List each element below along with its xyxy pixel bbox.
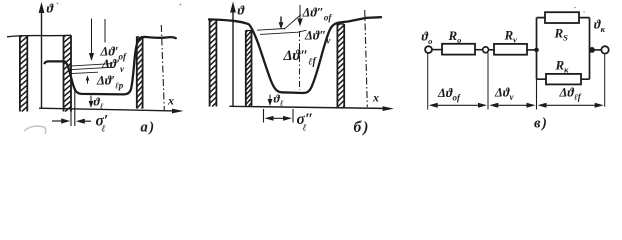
wire node to Rv <box>489 49 495 51</box>
wire junction to terminal theta-k <box>592 49 601 51</box>
diagram a: theta axis <box>39 2 45 109</box>
svg-text:ℓ: ℓ <box>303 124 307 134</box>
svg-text:x: x <box>372 91 379 105</box>
diagram a: level line 2 <box>69 67 113 70</box>
diagram b: left hatched wall <box>210 21 217 107</box>
scan smudge bottom left <box>24 126 46 134</box>
wire R0 to node <box>475 49 483 51</box>
diagram b: level line 1 <box>257 29 285 31</box>
parallel block right vertical wire <box>589 18 591 80</box>
terminal theta-o <box>425 46 432 53</box>
diagram b: label delta-theta-tf <box>283 48 318 68</box>
diagram a: x axis label <box>167 94 174 108</box>
diagram a: label sigma-i-prime <box>96 113 109 135</box>
node theta-o terminal label <box>422 30 433 47</box>
dimension arrow delta-theta-of <box>429 103 487 108</box>
wire terminal to R0 <box>432 49 442 51</box>
resistor Rv <box>494 28 527 55</box>
diagram a: small up arrow under level line 3 <box>86 75 90 83</box>
diagram a: theta-i arrow to axis <box>89 96 94 109</box>
diagram b: right hatched wall <box>337 24 344 107</box>
label delta-theta-of <box>437 86 461 103</box>
diagram b: label delta-theta-of <box>302 6 333 23</box>
diagram a: label delta-theta-v <box>101 57 125 74</box>
diagram a: caption <box>141 120 155 136</box>
dimension arrow delta-theta-v <box>489 103 535 108</box>
node between R0 and Rv <box>483 47 489 53</box>
node theta-k label <box>594 18 606 35</box>
diagram b: x axis label <box>372 91 379 105</box>
dimension arrow delta-theta-tf <box>538 103 604 108</box>
diagram b: theta-i arrow <box>268 95 273 107</box>
dimension extension line at terminal theta-k <box>604 54 606 107</box>
terminal theta-k <box>601 46 608 53</box>
svg-text:ϑ: ϑ <box>47 1 55 16</box>
resistor R0 <box>442 28 475 55</box>
diagram b: dash-dot center line <box>299 31 301 90</box>
diagram a: label delta-theta-of <box>100 45 127 62</box>
diagram a: theta axis label <box>47 1 55 16</box>
svg-text:в): в) <box>534 116 547 132</box>
diagram a: right hatched wall <box>137 36 143 108</box>
diagram b: theta axis <box>230 2 236 108</box>
dimension extension line at node <box>487 53 489 110</box>
diagram b: label sigma-i-dprime <box>297 111 314 134</box>
diagram b: dash-dot line right <box>365 10 368 107</box>
diagram b: level line 2 <box>260 30 307 34</box>
label delta-theta-v <box>494 86 514 103</box>
label delta-theta-tf <box>559 86 582 103</box>
diagram a: inner hatched wall <box>64 35 72 111</box>
diagram b: label theta-i <box>274 92 284 109</box>
resistor Rs <box>545 12 579 42</box>
junction right of parallel block <box>589 47 595 53</box>
svg-text:x: x <box>167 94 174 108</box>
diagram b: sigma extension ticks <box>264 109 294 123</box>
diagram b: dimension arrow down to plateau <box>297 5 302 27</box>
diagram a: sigma dimension arrows <box>52 118 91 123</box>
dimension extension line at terminal theta-o <box>427 53 429 109</box>
caption v <box>534 116 547 132</box>
diagram b: leader to label of <box>284 15 301 30</box>
diagram b: caption <box>354 119 369 136</box>
diagram b: x axis <box>229 106 394 111</box>
diagram a: dash-dot symmetry line <box>161 25 164 110</box>
diagram a: temperature curve <box>45 37 176 94</box>
top branch wires <box>537 17 590 19</box>
diagram b: groove left hatched wall <box>246 31 252 107</box>
resistor Rk <box>546 58 581 85</box>
diagram b: sigma dimension double arrow <box>265 116 293 121</box>
diagram a: level line 1 <box>68 64 113 67</box>
diagram a: dimension arrow down to plateau <box>89 19 94 62</box>
parallel block left vertical wire <box>536 18 538 110</box>
diagram b: temperature curve <box>209 17 381 93</box>
diagram a: x axis <box>39 108 184 113</box>
svg-text:ℓ: ℓ <box>102 125 106 135</box>
svg-text:а): а) <box>141 120 155 136</box>
diagram a: left hatched wall <box>20 36 27 112</box>
diagram b: small level arrows <box>279 17 284 30</box>
diagram b: label delta-theta-v <box>304 29 331 46</box>
svg-text:б): б) <box>354 119 369 136</box>
diagram b: theta axis label <box>238 3 246 18</box>
svg-text:ϑ: ϑ <box>238 3 246 18</box>
diagram a: label delta-theta-tp <box>96 74 124 91</box>
diagram a: level line 3 <box>71 72 98 73</box>
scan noise specks <box>57 3 585 122</box>
diagram a: groove wall extension line <box>74 90 76 126</box>
junction left of parallel block <box>534 48 539 53</box>
wire Rv to parallel block <box>527 49 537 51</box>
diagram a: label theta-i <box>94 95 104 112</box>
diagram a: top surface line <box>7 35 71 37</box>
bottom branch wires <box>537 78 590 80</box>
diagram a: wall edge extension to sigma tick <box>70 109 72 126</box>
diagram a: label extension line top <box>104 19 106 43</box>
